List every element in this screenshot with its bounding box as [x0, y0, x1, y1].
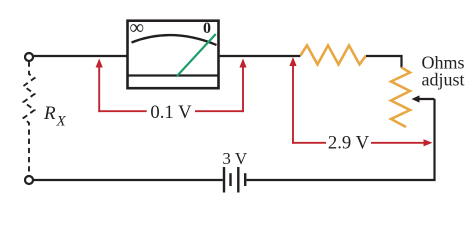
terminal node (top-left open circle) — [25, 53, 33, 61]
svg-text:3 V: 3 V — [222, 149, 247, 168]
wire (bottom right: battery to right corner) — [247, 179, 436, 181]
svg-text:R: R — [43, 103, 56, 124]
meter scale arc — [132, 35, 217, 45]
measurement bracket 0.1 V (red, left leg with up arrow) — [96, 59, 103, 113]
label 0.1 V — [150, 102, 192, 123]
resistor R1 (series, horizontal) — [300, 45, 366, 64]
wire (resistor to top-right corner, down to rheostat) — [366, 56, 402, 68]
resistor RX (dashed zigzag, unknown resistance) — [24, 62, 35, 176]
meter M1 (galvanometer box) — [128, 21, 219, 89]
label RX — [43, 103, 67, 130]
wire (right side, wiper down to bottom) — [433, 99, 435, 180]
wiper arrow (rheostat tap) — [412, 95, 435, 102]
svg-text:2.9 V: 2.9 V — [328, 133, 370, 154]
meter label 0 — [203, 20, 211, 37]
svg-text:X: X — [56, 114, 67, 130]
svg-text:adjust: adjust — [422, 70, 465, 90]
measurement bracket 2.9 V (horizontal right segment with right arrow) — [371, 139, 433, 146]
terminal node (bottom-left open circle) — [25, 176, 33, 184]
meter needle — [177, 34, 216, 76]
meter label infinity — [130, 17, 145, 39]
wire (bottom left: terminal to battery) — [34, 179, 223, 181]
meter inner baseline — [128, 74, 219, 76]
svg-text:0.1 V: 0.1 V — [150, 102, 192, 123]
label 2.9 V — [328, 133, 370, 154]
resistor R2 (Ohms adjust rheostat, vertical) — [391, 68, 410, 128]
measurement bracket 2.9 V (vertical leg with up arrow) — [289, 57, 296, 144]
measurement bracket 0.1 V (horizontal left segment) — [98, 110, 146, 112]
wire (top-left: terminal to meter) — [34, 55, 128, 57]
svg-text:0: 0 — [203, 20, 211, 37]
battery B1 (3 V) — [224, 167, 245, 193]
measurement bracket 0.1 V (horizontal right segment) — [195, 110, 244, 112]
wire (meter to series resistor) — [219, 55, 301, 57]
measurement bracket 2.9 V (horizontal left segment) — [292, 142, 326, 144]
measurement bracket 0.1 V (right leg with up arrow) — [239, 59, 246, 113]
svg-text:∞: ∞ — [130, 17, 145, 39]
label Ohms adjust — [422, 53, 465, 90]
label 3 V — [222, 149, 247, 168]
